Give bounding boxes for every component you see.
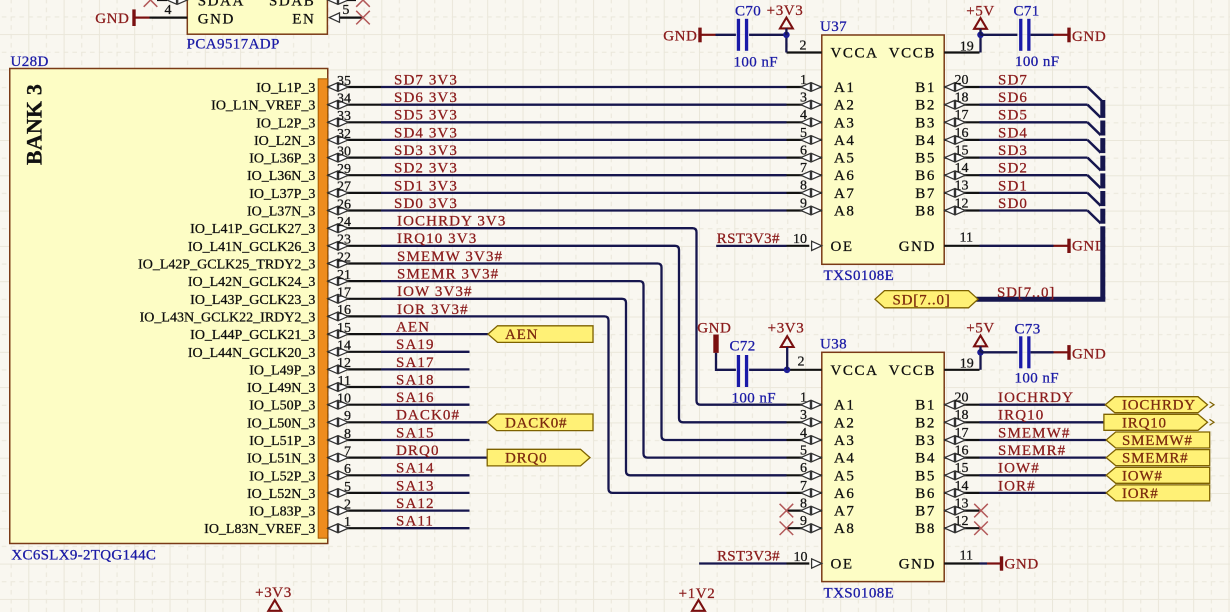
- svg-text:6: 6: [800, 143, 807, 158]
- svg-text:IO_L37N_3: IO_L37N_3: [247, 205, 315, 220]
- wire GND to C70: [716, 34, 736, 36]
- power port GND right of C71: [1067, 28, 1070, 43]
- svg-text:12: 12: [337, 356, 351, 371]
- svg-text:SD5: SD5: [998, 108, 1028, 124]
- svg-text:SD2: SD2: [998, 161, 1028, 177]
- pin 5 stub (U38 A4): [787, 457, 822, 459]
- svg-text:DRQ0: DRQ0: [396, 443, 440, 459]
- svg-text:VCCA: VCCA: [831, 46, 879, 62]
- pin 18 stub (U37 B2): [944, 104, 979, 106]
- wire SD4_3V3: [381, 139, 787, 141]
- svg-text:DACK0#: DACK0#: [505, 415, 567, 431]
- wire SA19: [381, 351, 470, 353]
- svg-text:A1: A1: [834, 80, 856, 96]
- pin 17 (IO_L43P_GCLK23_3): [328, 298, 381, 300]
- svg-text:SD6 3V3: SD6 3V3: [394, 90, 458, 106]
- svg-text:GND: GND: [95, 11, 129, 27]
- svg-text:11: 11: [338, 374, 351, 389]
- pin 19 stub (U37 VCCB): [944, 51, 979, 53]
- pin 15 (IO_L44P_GCLK21_3): [328, 333, 381, 335]
- wire SD0_3V3: [381, 209, 787, 211]
- svg-text:10: 10: [793, 232, 807, 247]
- svg-text:GND: GND: [198, 11, 235, 27]
- pin 7 stub (U38 A6): [787, 492, 822, 494]
- svg-text:14: 14: [955, 479, 969, 494]
- svg-text:A2: A2: [834, 98, 856, 114]
- svg-text:GND: GND: [899, 239, 936, 255]
- svg-text:IO_L41N_GCLK26_3: IO_L41N_GCLK26_3: [188, 240, 316, 255]
- svg-text:IO_L43N_GCLK22_IRDY2_3: IO_L43N_GCLK22_IRDY2_3: [140, 310, 316, 325]
- svg-text:IOR 3V3#: IOR 3V3#: [397, 302, 469, 318]
- junction +5V U37: [977, 32, 984, 39]
- svg-text:5: 5: [342, 3, 349, 18]
- svg-text:IOR#: IOR#: [1122, 486, 1159, 502]
- wire VCCB U37: [979, 35, 981, 53]
- svg-text:IO_L36N_3: IO_L36N_3: [247, 169, 315, 184]
- pin 3 glyph (cut top row): [167, 0, 177, 4]
- svg-text:SMEMW#: SMEMW#: [998, 425, 1070, 441]
- svg-text:9: 9: [800, 196, 807, 211]
- wire SMEMW#: [980, 439, 1107, 441]
- svg-text:IO_L44P_GCLK21_3: IO_L44P_GCLK21_3: [190, 328, 315, 343]
- junction +5V U38: [977, 349, 984, 356]
- svg-text:AEN: AEN: [396, 320, 430, 336]
- svg-text:B4: B4: [915, 451, 936, 467]
- wire C72 to +3V3: [749, 369, 786, 371]
- svg-text:8: 8: [800, 179, 807, 194]
- wire SD1: [980, 192, 1088, 194]
- bus entry SD2: [1088, 175, 1103, 190]
- svg-text:23: 23: [337, 233, 351, 248]
- capacitor C71: [1019, 19, 1022, 51]
- pin 7 (IO_L51N_3): [328, 457, 381, 459]
- svg-text:IO_L1N_VREF_3: IO_L1N_VREF_3: [211, 99, 315, 114]
- svg-text:A4: A4: [834, 451, 856, 467]
- pin 11 (IO_L49N_3): [328, 386, 381, 388]
- svg-text:27: 27: [337, 180, 351, 195]
- svg-text:TXS0108E: TXS0108E: [824, 585, 895, 601]
- orange IO strip: [318, 79, 327, 538]
- capacitor C72: [737, 355, 740, 387]
- pin 13 stub (U37 B7): [944, 192, 979, 194]
- svg-text:IRQ10 3V3: IRQ10 3V3: [397, 231, 477, 247]
- svg-text:SD3 3V3: SD3 3V3: [394, 143, 458, 159]
- wire SD6_3V3: [381, 104, 787, 106]
- svg-text:IOCHRDY 3V3: IOCHRDY 3V3: [397, 214, 506, 230]
- pin 6 (IO_L52P_3): [328, 474, 381, 476]
- svg-text:IOR#: IOR#: [998, 478, 1036, 494]
- svg-text:18: 18: [955, 408, 969, 423]
- wire IOW#: [980, 474, 1107, 476]
- svg-text:GND: GND: [1005, 556, 1039, 572]
- wire SA11: [381, 527, 470, 529]
- svg-text:SD0 3V3: SD0 3V3: [394, 196, 458, 212]
- svg-text:U38: U38: [820, 336, 847, 352]
- svg-text:GND: GND: [1072, 29, 1106, 45]
- wire SD5: [980, 121, 1088, 123]
- pin 9 stub (U37 A8): [787, 209, 822, 211]
- svg-text:6: 6: [800, 461, 807, 476]
- svg-text:2: 2: [344, 497, 351, 512]
- pin 1 stub (U37 A1): [787, 86, 822, 88]
- svg-text:GND: GND: [663, 29, 697, 45]
- svg-text:A5: A5: [834, 468, 856, 484]
- svg-text:A8: A8: [834, 204, 856, 220]
- svg-text:SDAB: SDAB: [269, 0, 315, 10]
- svg-text:19: 19: [960, 356, 974, 371]
- no-connect X on U38 B8: [974, 522, 988, 536]
- svg-text:B8: B8: [915, 204, 936, 220]
- pin 15 stub (U37 B5): [944, 157, 979, 159]
- svg-text:8: 8: [800, 496, 807, 511]
- svg-text:7: 7: [344, 444, 351, 459]
- wire RST3V3# (U38): [699, 562, 786, 564]
- pin 20 stub (U37 B1): [944, 86, 979, 88]
- pin 11 stub (U38 GND): [944, 562, 979, 564]
- power port +1V2 (bottom): [692, 600, 705, 611]
- bus entry SD0: [1088, 211, 1103, 225]
- svg-text:IO_L37P_3: IO_L37P_3: [249, 187, 315, 202]
- svg-text:B1: B1: [915, 80, 936, 96]
- no-connect X on pin 6 wire: [356, 0, 370, 7]
- svg-text:17: 17: [337, 286, 351, 301]
- wire C71 to GND: [1031, 34, 1054, 36]
- pin 10 stub (U38 OE): [787, 562, 810, 564]
- wire SD4: [980, 139, 1088, 141]
- svg-text:TXS0108E: TXS0108E: [824, 268, 895, 284]
- pin 19 stub (U38 VCCB): [944, 369, 979, 371]
- pin 4 stub (GND): [152, 17, 187, 19]
- IC U28D BANK3 body: [10, 69, 328, 544]
- IC U37 body: [822, 35, 944, 264]
- svg-text:B8: B8: [915, 521, 936, 537]
- wire SA15: [381, 439, 470, 441]
- pin 5 stub (U37 A4): [787, 139, 822, 141]
- pin 6 stub (U38 A5): [787, 474, 822, 476]
- svg-text:SA11: SA11: [396, 514, 434, 530]
- svg-text:33: 33: [337, 109, 351, 124]
- svg-text:16: 16: [955, 443, 969, 458]
- svg-text:IO_L51N_3: IO_L51N_3: [247, 452, 315, 467]
- wire SA18: [381, 386, 470, 388]
- pin 4 stub (U37 A3): [787, 121, 822, 123]
- wire C73 to GND: [1031, 351, 1054, 353]
- svg-text:IO_L51P_3: IO_L51P_3: [249, 434, 315, 449]
- power port +3V3 (U38): [781, 336, 794, 347]
- svg-text:11: 11: [960, 231, 973, 246]
- svg-text:12: 12: [955, 514, 969, 529]
- svg-text:4: 4: [165, 3, 172, 18]
- svg-text:A1: A1: [834, 398, 856, 414]
- wire IOCHRDY: [980, 404, 1106, 406]
- wire IRQ10_3V3: [381, 246, 787, 422]
- pin 5 (IO_L52N_3): [328, 492, 381, 494]
- pin 14 (IO_L44N_GCLK20_3): [328, 351, 381, 353]
- svg-text:IO_L52N_3: IO_L52N_3: [247, 487, 315, 502]
- wire SA12: [381, 509, 470, 511]
- svg-text:IO_L49N_3: IO_L49N_3: [247, 381, 315, 396]
- svg-text:13: 13: [955, 179, 969, 194]
- wire IOCHRDY_3V3: [381, 228, 787, 405]
- pin 33 (IO_L2P_3): [328, 121, 381, 123]
- pin 26 (IO_L37N_3): [328, 209, 381, 211]
- svg-text:SA16: SA16: [396, 390, 435, 406]
- wire SD7_3V3: [381, 86, 787, 88]
- wire IOR#: [980, 492, 1107, 494]
- svg-text:B7: B7: [915, 186, 936, 202]
- svg-text:B4: B4: [915, 133, 936, 149]
- svg-text:+5V: +5V: [966, 320, 995, 336]
- pin 16 stub (U37 B4): [944, 139, 979, 141]
- svg-text:6: 6: [344, 462, 351, 477]
- svg-text:B2: B2: [915, 415, 936, 431]
- port DRQ0: [487, 449, 590, 466]
- pin 7 stub (U37 A6): [787, 174, 822, 176]
- svg-text:4: 4: [800, 426, 807, 441]
- svg-text:29: 29: [337, 162, 351, 177]
- svg-text:IO_L36P_3: IO_L36P_3: [249, 152, 315, 167]
- svg-text:12: 12: [955, 196, 969, 211]
- pin 22 (IO_L42P_GCLK25_TRDY2_3): [328, 262, 381, 264]
- svg-text:7: 7: [800, 161, 807, 176]
- svg-text:SA17: SA17: [396, 355, 435, 371]
- no-connect X on pin 3 wire: [144, 0, 158, 7]
- svg-text:C71: C71: [1014, 4, 1040, 20]
- svg-text:A3: A3: [834, 433, 856, 449]
- svg-text:SMEMW 3V3#: SMEMW 3V3#: [397, 249, 503, 265]
- pin 10 (IO_L50P_3): [328, 404, 381, 406]
- svg-text:IRQ10: IRQ10: [998, 408, 1044, 424]
- svg-text:18: 18: [955, 91, 969, 106]
- svg-text:SD6: SD6: [998, 90, 1028, 106]
- pin 8 (IO_L51P_3): [328, 439, 381, 441]
- pin 14 stub (U37 B6): [944, 174, 979, 176]
- wire SMEMR_3V3#: [381, 281, 787, 458]
- port IOW#: [1106, 467, 1210, 483]
- svg-text:B3: B3: [915, 433, 936, 449]
- svg-text:GND: GND: [1072, 347, 1106, 363]
- svg-text:24: 24: [337, 215, 351, 230]
- svg-text:19: 19: [960, 39, 974, 54]
- svg-text:16: 16: [955, 126, 969, 141]
- svg-text:DACK0#: DACK0#: [396, 408, 460, 424]
- wire SD2: [980, 174, 1088, 176]
- svg-text:32: 32: [337, 127, 351, 142]
- bus entry SD6: [1088, 105, 1103, 119]
- svg-text:15: 15: [955, 461, 969, 476]
- wire SD3: [980, 156, 1088, 158]
- svg-text:SD2 3V3: SD2 3V3: [394, 161, 458, 177]
- svg-text:A8: A8: [834, 521, 856, 537]
- power port +3V3 (U37): [780, 18, 793, 29]
- pin 17 stub (U37 B3): [944, 121, 979, 123]
- pin 3 stub (U38 A2): [787, 421, 822, 423]
- svg-text:IO_L49P_3: IO_L49P_3: [249, 363, 315, 378]
- junction +3V3 U38: [784, 367, 791, 374]
- svg-text:26: 26: [337, 197, 351, 212]
- svg-text:16: 16: [337, 303, 351, 318]
- no-connect X on EN pin: [356, 11, 370, 25]
- wire SD6: [980, 104, 1088, 106]
- pin 4 stub (U38 A3): [787, 439, 822, 441]
- svg-text:14: 14: [337, 339, 351, 354]
- svg-text:IOW 3V3#: IOW 3V3#: [397, 284, 473, 300]
- svg-text:SD1 3V3: SD1 3V3: [394, 178, 458, 194]
- wire SA16: [381, 404, 470, 406]
- svg-text:IO_L50P_3: IO_L50P_3: [249, 399, 315, 414]
- svg-text:C73: C73: [1015, 322, 1041, 338]
- pin 16 stub (U38 B4): [944, 457, 979, 459]
- pin 9 (IO_L50N_3): [328, 421, 381, 423]
- wire U37 GND: [980, 245, 1054, 247]
- svg-text:IO_L42N_GCLK24_3: IO_L42N_GCLK24_3: [188, 275, 316, 290]
- pin 15 stub (U38 B5): [944, 474, 979, 476]
- svg-text:IOCHRDY: IOCHRDY: [1122, 398, 1196, 414]
- wire IOW_3V3#: [381, 299, 787, 476]
- svg-text:SA18: SA18: [396, 372, 435, 388]
- pin 1 (IO_L83N_VREF_3): [328, 527, 381, 529]
- IC U38 body: [822, 352, 944, 581]
- svg-text:IOCHRDY: IOCHRDY: [998, 390, 1074, 406]
- wire +5V to C73: [981, 351, 1018, 353]
- svg-text:SD4: SD4: [998, 125, 1028, 141]
- pin 10 stub (U37 OE): [787, 245, 810, 247]
- svg-text:5: 5: [800, 126, 807, 141]
- svg-text:8: 8: [344, 427, 351, 442]
- wire VCCB U38: [979, 352, 981, 370]
- wire AEN: [381, 333, 488, 335]
- svg-text:B5: B5: [915, 151, 936, 167]
- svg-text:GND: GND: [899, 556, 936, 572]
- pin 29 (IO_L36N_3): [328, 174, 381, 176]
- no-connect X on U38 B7: [974, 504, 988, 518]
- pin 20 stub (U38 B1): [944, 404, 979, 406]
- svg-text:B5: B5: [915, 468, 936, 484]
- svg-text:PCA9517ADP: PCA9517ADP: [187, 37, 280, 53]
- svg-text:A4: A4: [834, 133, 856, 149]
- svg-text:AEN: AEN: [505, 327, 538, 343]
- power port +5V (U38): [974, 336, 987, 347]
- wire IOR_3V3#: [381, 316, 787, 493]
- svg-text:SDAA: SDAA: [198, 0, 245, 10]
- bus entry SD5: [1088, 122, 1103, 136]
- svg-text:IO_L50N_3: IO_L50N_3: [247, 416, 315, 431]
- svg-text:B7: B7: [915, 504, 936, 520]
- svg-text:10: 10: [794, 550, 808, 565]
- no-connect X on U38 A8: [780, 522, 794, 536]
- svg-text:SD7 3V3: SD7 3V3: [394, 72, 458, 88]
- svg-text:IRQ10: IRQ10: [1122, 415, 1167, 431]
- pin 18 stub (U38 B2): [944, 421, 979, 423]
- svg-text:A7: A7: [834, 504, 856, 520]
- IC U36 PCA9517ADP body: [187, 0, 327, 34]
- svg-text:21: 21: [337, 268, 351, 283]
- svg-text:RST3V3#: RST3V3#: [717, 548, 780, 564]
- pin 8 stub (U37 A7): [787, 192, 822, 194]
- svg-text:B6: B6: [915, 486, 936, 502]
- svg-text:9: 9: [344, 409, 351, 424]
- svg-text:IO_L52P_3: IO_L52P_3: [249, 469, 315, 484]
- pin 1 stub (U38 A1): [787, 404, 822, 406]
- svg-text:IO_L42P_GCLK25_TRDY2_3: IO_L42P_GCLK25_TRDY2_3: [138, 258, 315, 273]
- svg-text:100 nF: 100 nF: [732, 390, 777, 406]
- power port GND (U37 pin11): [1067, 239, 1070, 253]
- svg-text:5: 5: [344, 480, 351, 495]
- svg-text:C72: C72: [730, 339, 756, 355]
- wire GND to C72: [716, 353, 736, 370]
- pin 6 glyph (cut top row): [328, 0, 338, 4]
- pin 32 (IO_L2N_3): [328, 139, 381, 141]
- svg-text:SA19: SA19: [396, 337, 435, 353]
- wire SMEMR#: [980, 456, 1107, 458]
- svg-text:SA12: SA12: [396, 496, 435, 512]
- svg-text:+3V3: +3V3: [767, 3, 804, 19]
- bus entry SD3: [1088, 158, 1103, 172]
- svg-text:7: 7: [800, 479, 807, 494]
- svg-text:C70: C70: [735, 4, 761, 20]
- svg-text:BANK 3: BANK 3: [22, 84, 47, 165]
- svg-text:IOW#: IOW#: [1122, 468, 1163, 484]
- bus SD[7..0] horizontal: [975, 297, 1105, 302]
- pin 12 (IO_L49P_3): [328, 368, 381, 370]
- svg-text:20: 20: [955, 391, 969, 406]
- svg-text:20: 20: [955, 73, 969, 88]
- pin 2 stub (U38 VCCA): [787, 369, 822, 371]
- svg-text:SD[7..0]: SD[7..0]: [893, 292, 951, 308]
- wire U38 GND: [980, 562, 988, 564]
- pin 6 stub (U37 A5): [787, 157, 822, 159]
- svg-text:4: 4: [800, 108, 807, 123]
- wire DACK0#: [381, 421, 487, 423]
- svg-text:B3: B3: [915, 115, 936, 131]
- svg-text:SD7: SD7: [998, 72, 1028, 88]
- svg-text:22: 22: [337, 250, 351, 265]
- port IOCHRDY: [1105, 397, 1207, 413]
- svg-text:100 nF: 100 nF: [1015, 54, 1060, 70]
- svg-text:11: 11: [960, 549, 973, 564]
- svg-text:15: 15: [337, 321, 351, 336]
- pin 9 stub (U38 A8): [787, 527, 822, 529]
- svg-text:2: 2: [798, 355, 805, 370]
- svg-text:A6: A6: [834, 168, 856, 184]
- power port +5V (U37): [974, 18, 987, 29]
- pin 23 (IO_L41N_GCLK26_3): [328, 245, 381, 247]
- svg-text:SD1: SD1: [998, 178, 1028, 194]
- bus entry SD1: [1088, 193, 1103, 207]
- pin 14 stub (U38 B6): [944, 492, 979, 494]
- svg-text:U37: U37: [820, 19, 847, 35]
- port DACK0#: [487, 414, 593, 431]
- svg-text:14: 14: [955, 161, 969, 176]
- wire VCCA U37: [785, 35, 787, 53]
- pin 30 (IO_L36P_3): [328, 157, 381, 159]
- svg-text:10: 10: [337, 392, 351, 407]
- power port +3V3 (bottom): [268, 600, 281, 611]
- port SMEMR#: [1106, 450, 1210, 466]
- svg-text:IO_L83N_VREF_3: IO_L83N_VREF_3: [204, 522, 315, 537]
- bus entry SD7: [1088, 87, 1103, 101]
- power port GND (U38 pin11): [1000, 556, 1003, 570]
- svg-text:VCCB: VCCB: [889, 363, 936, 379]
- port SD[7..0]: [875, 291, 978, 308]
- pin 17 stub (U38 B3): [944, 439, 979, 441]
- svg-text:SMEMR 3V3#: SMEMR 3V3#: [397, 267, 499, 283]
- svg-text:VCCA: VCCA: [831, 363, 879, 379]
- pin 27 (IO_L37P_3): [328, 192, 381, 194]
- svg-text:100 nF: 100 nF: [1015, 370, 1060, 386]
- svg-text:OE: OE: [831, 556, 854, 572]
- pin 12 stub (U37 B8): [944, 209, 979, 211]
